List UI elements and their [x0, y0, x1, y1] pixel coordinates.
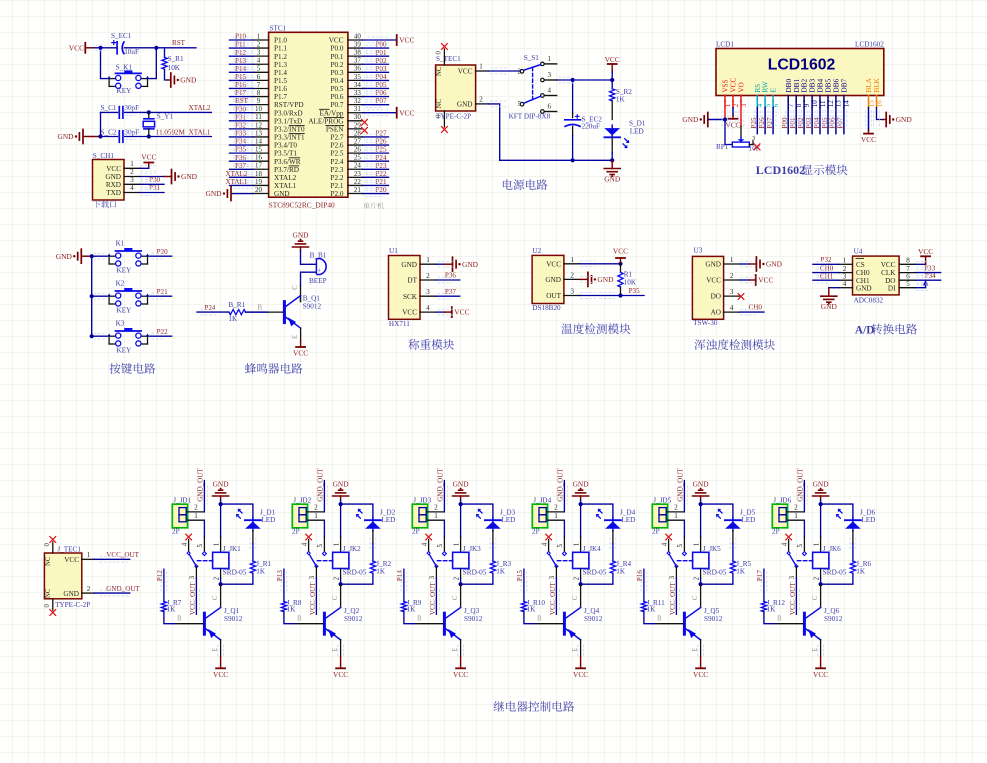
wire — [230, 168, 254, 170]
svg-text:4: 4 — [181, 542, 188, 546]
wire — [461, 573, 493, 584]
wire base — [404, 612, 416, 624]
svg-text:35: 35 — [354, 73, 362, 81]
svg-text:BLK: BLK — [873, 77, 881, 92]
no-ERC marker — [754, 144, 760, 150]
svg-text:S9012: S9012 — [303, 303, 322, 311]
svg-text:VCC: VCC — [813, 670, 828, 679]
ground — [707, 113, 709, 127]
wire — [581, 504, 613, 519]
junction — [610, 78, 614, 82]
wire — [94, 47, 117, 49]
svg-text:RST: RST — [172, 39, 186, 47]
svg-text:1K: 1K — [256, 567, 266, 575]
svg-text:4: 4 — [541, 542, 548, 546]
svg-text:SRD-05: SRD-05 — [583, 569, 607, 577]
svg-text:2: 2 — [453, 576, 460, 580]
svg-text:VCC_OUT: VCC_OUT — [189, 582, 197, 615]
relay blade — [549, 553, 557, 566]
pin 2 — [308, 511, 324, 513]
svg-text:S_R1: S_R1 — [168, 55, 184, 63]
ground — [693, 495, 709, 497]
svg-text:1: 1 — [314, 512, 318, 520]
svg-text:GND_OUT: GND_OUT — [437, 468, 445, 502]
svg-text:BLA: BLA — [865, 77, 873, 92]
wire — [916, 286, 926, 288]
svg-text:18: 18 — [255, 170, 263, 178]
no-ERC marker — [442, 44, 448, 50]
svg-text:1K: 1K — [287, 606, 297, 614]
pin 1 VCC — [476, 70, 489, 72]
svg-text:P13: P13 — [235, 57, 246, 65]
wire — [230, 184, 254, 186]
svg-text:P3.7/RD: P3.7/RD — [274, 166, 299, 174]
svg-text:GND: GND — [813, 480, 830, 489]
wire — [803, 520, 805, 537]
svg-text:22: 22 — [354, 178, 362, 186]
LED J_D6 — [845, 519, 861, 521]
junction — [571, 78, 575, 82]
svg-text:P0.3: P0.3 — [331, 69, 344, 77]
svg-text:XTAL2: XTAL2 — [189, 104, 211, 112]
svg-text:10K: 10K — [624, 278, 637, 286]
power port VCC — [396, 35, 398, 45]
svg-text:2P: 2P — [532, 528, 540, 536]
pin 1 — [668, 519, 684, 521]
pin 2 — [668, 511, 684, 513]
wire — [488, 104, 499, 160]
pin 2 GND — [476, 103, 489, 105]
wire — [341, 504, 373, 519]
svg-text:2: 2 — [426, 272, 430, 280]
wire base — [644, 612, 656, 624]
svg-text:3: 3 — [189, 575, 196, 579]
node P12 — [163, 569, 165, 601]
svg-text:GND: GND — [181, 172, 198, 181]
pin 1 — [548, 519, 564, 521]
pin 26 P2.5 — [348, 152, 363, 154]
power port VCC — [749, 279, 755, 281]
svg-text:4: 4 — [301, 542, 308, 546]
relay J_JK6 pin5 — [803, 537, 805, 551]
svg-text:P23: P23 — [375, 162, 386, 170]
svg-text:1K: 1K — [407, 606, 417, 614]
svg-text:C: C — [692, 595, 699, 600]
wire — [764, 101, 766, 108]
wire — [740, 311, 764, 313]
svg-text:P0.0: P0.0 — [331, 45, 344, 53]
svg-text:LED: LED — [741, 516, 755, 524]
svg-text:P1.1: P1.1 — [274, 45, 287, 53]
wire collector — [460, 584, 462, 607]
wire — [230, 128, 254, 130]
relay J_JK1 pin5 — [203, 537, 205, 551]
svg-text:1: 1 — [573, 543, 580, 546]
svg-text:P24: P24 — [375, 154, 386, 162]
svg-text:GND_OUT: GND_OUT — [317, 468, 325, 502]
svg-text:20: 20 — [255, 186, 263, 194]
wire — [787, 101, 789, 108]
wire — [611, 72, 613, 80]
svg-text:2: 2 — [794, 503, 798, 511]
svg-text:VCC: VCC — [730, 78, 738, 93]
wire — [611, 138, 613, 153]
wire — [232, 193, 253, 195]
svg-text:P04: P04 — [375, 73, 386, 81]
junction — [219, 582, 223, 586]
svg-text:VCC: VCC — [453, 670, 468, 679]
svg-text:DT: DT — [407, 277, 417, 285]
svg-text:DB3: DB3 — [809, 79, 817, 93]
svg-text:S9012: S9012 — [584, 615, 603, 623]
wire — [436, 295, 459, 297]
svg-text:26: 26 — [354, 146, 362, 154]
wire collector — [700, 584, 702, 607]
resistor J_R5 — [730, 561, 735, 573]
svg-text:P37: P37 — [235, 162, 246, 170]
svg-text:KEY: KEY — [117, 87, 133, 95]
junction — [90, 334, 94, 338]
wire — [221, 504, 253, 519]
pin 33 P0.6 — [348, 96, 363, 98]
wire — [580, 496, 582, 500]
relay link dashed — [197, 560, 212, 562]
svg-text:S_C2: S_C2 — [101, 128, 117, 136]
svg-text:P06: P06 — [375, 89, 386, 97]
svg-text:NC: NC — [436, 66, 443, 76]
wire coil pin1 — [700, 504, 702, 537]
svg-text:10uF: 10uF — [124, 48, 139, 56]
wire — [362, 184, 388, 186]
pin 5 P1.4 — [253, 71, 269, 73]
module U2 body — [532, 255, 564, 303]
wire — [246, 311, 268, 313]
svg-text:CS: CS — [856, 261, 865, 269]
svg-text:2: 2 — [130, 168, 134, 176]
svg-text:SRD-05: SRD-05 — [463, 569, 487, 577]
wire — [300, 328, 302, 340]
svg-text:GND: GND — [333, 480, 350, 489]
svg-text:5: 5 — [437, 544, 444, 548]
wire — [362, 71, 388, 73]
svg-text:1K: 1K — [767, 606, 777, 614]
svg-text:P12: P12 — [156, 570, 164, 581]
svg-text:VCC_OUT: VCC_OUT — [106, 551, 139, 559]
svg-text:LED: LED — [630, 127, 644, 135]
junction — [699, 502, 703, 506]
junction — [339, 582, 343, 586]
resistor J_R3 — [490, 561, 495, 573]
svg-text:30pF: 30pF — [124, 128, 139, 136]
wire — [843, 101, 845, 108]
wire — [362, 39, 396, 41]
pin 25 P2.4 — [348, 160, 363, 162]
svg-text:1: 1 — [426, 256, 430, 264]
svg-text:XTAL1: XTAL1 — [274, 182, 297, 190]
svg-text:1: 1 — [813, 543, 820, 546]
svg-text:P2.4: P2.4 — [331, 158, 344, 166]
svg-text:DI: DI — [888, 284, 896, 292]
svg-text:4: 4 — [548, 87, 552, 95]
wire coil pin2 — [340, 569, 342, 579]
ground — [813, 495, 829, 497]
wire — [443, 520, 445, 537]
wire — [803, 101, 805, 108]
wire — [94, 592, 130, 594]
wire — [101, 111, 118, 113]
svg-text:GND: GND — [856, 284, 872, 292]
svg-text:28: 28 — [354, 129, 362, 137]
wire emitter — [700, 640, 702, 657]
pin 34 P0.5 — [348, 87, 363, 89]
LED S_D1 — [604, 128, 620, 135]
svg-text:U3: U3 — [694, 246, 703, 254]
svg-text:VCC: VCC — [106, 165, 121, 173]
svg-text:P16: P16 — [235, 81, 246, 89]
svg-text:C: C — [452, 595, 459, 600]
wire base — [764, 612, 776, 624]
svg-text:RW: RW — [762, 81, 770, 92]
svg-text:HX711: HX711 — [389, 320, 410, 328]
wire — [124, 47, 196, 49]
svg-text:P05: P05 — [375, 81, 386, 89]
wire — [220, 496, 222, 500]
ground — [611, 160, 613, 168]
svg-text:B: B — [537, 615, 542, 622]
svg-text:P3.0/RxD: P3.0/RxD — [274, 109, 303, 117]
relay pin3 wire — [435, 567, 437, 578]
resistor J_R6 — [850, 561, 855, 573]
svg-text:GND: GND — [896, 115, 913, 124]
wire — [835, 101, 837, 108]
wire pin16 BLK — [876, 101, 878, 108]
wire base — [284, 612, 296, 624]
svg-text:P15: P15 — [516, 570, 524, 581]
junction — [459, 502, 463, 506]
svg-text:VCC: VCC — [454, 308, 469, 317]
wire — [572, 80, 574, 114]
ground — [213, 495, 229, 497]
pin 19 XTAL1 — [253, 184, 269, 186]
svg-text:B: B — [777, 615, 782, 622]
svg-text:GND_OUT: GND_OUT — [797, 468, 805, 502]
relay J_JK2 pin5 — [323, 537, 325, 551]
svg-text:VCC_OUT: VCC_OUT — [789, 582, 797, 615]
svg-text:B: B — [258, 305, 263, 312]
wire — [300, 286, 302, 302]
junction — [339, 502, 343, 506]
svg-text:2: 2 — [257, 40, 261, 48]
relay J_JK3 pin5 — [443, 537, 445, 551]
svg-text:P30: P30 — [149, 176, 160, 184]
svg-text:S9012: S9012 — [464, 615, 483, 623]
resistor J_R12 — [761, 602, 766, 612]
relay switch pin4 — [546, 534, 552, 540]
ground — [453, 495, 469, 497]
svg-text:P0.7: P0.7 — [331, 101, 344, 109]
svg-text:P26: P26 — [375, 138, 386, 146]
svg-text:21: 21 — [354, 186, 362, 194]
power port VCC — [148, 163, 150, 166]
svg-text:B: B — [177, 615, 182, 622]
wire — [230, 160, 254, 162]
svg-text:DO: DO — [711, 293, 721, 301]
wire — [230, 104, 254, 106]
svg-text:1K: 1K — [527, 606, 537, 614]
wire — [101, 48, 108, 79]
wire — [230, 47, 254, 49]
wire — [611, 101, 613, 120]
wire — [203, 481, 205, 512]
svg-text:SCK: SCK — [403, 293, 418, 301]
svg-text:J_Q5: J_Q5 — [704, 607, 720, 615]
wire — [230, 71, 254, 73]
svg-text:PSEN: PSEN — [326, 125, 344, 133]
wire — [221, 573, 253, 584]
svg-text:LCD1602: LCD1602 — [768, 56, 836, 73]
svg-text:B: B — [417, 615, 422, 622]
svg-text:VCC: VCC — [918, 247, 933, 256]
svg-text:P1.0: P1.0 — [274, 37, 287, 45]
svg-text:2: 2 — [674, 503, 678, 511]
svg-text:P02: P02 — [797, 117, 805, 128]
svg-text:VCC: VCC — [293, 349, 308, 358]
svg-text:2: 2 — [434, 503, 438, 511]
resistor J_R9 — [401, 602, 406, 612]
svg-text:1: 1 — [554, 512, 558, 520]
resistor J_R10 — [521, 602, 526, 612]
svg-text:P1.2: P1.2 — [274, 53, 287, 61]
svg-text:2P: 2P — [412, 528, 420, 536]
svg-text:J_Q6: J_Q6 — [824, 607, 840, 615]
svg-text:DB6: DB6 — [833, 79, 841, 93]
svg-text:1K: 1K — [736, 567, 746, 575]
svg-text:GND_OUT: GND_OUT — [106, 585, 140, 593]
svg-text:5: 5 — [317, 544, 324, 548]
svg-text:GND_OUT: GND_OUT — [557, 468, 565, 502]
svg-text:GND: GND — [56, 252, 73, 261]
svg-text:DB0: DB0 — [785, 79, 793, 93]
junction — [579, 582, 583, 586]
wire — [101, 136, 118, 138]
svg-text:SRD-05: SRD-05 — [823, 569, 847, 577]
wire — [125, 111, 212, 113]
wire — [813, 279, 839, 281]
svg-text:GND: GND — [57, 132, 74, 141]
svg-text:P3.5/T1: P3.5/T1 — [274, 150, 297, 158]
MCU U STC1 body — [269, 32, 348, 197]
svg-text:1K: 1K — [647, 606, 657, 614]
pin 22 P2.1 — [348, 184, 363, 186]
svg-text:5: 5 — [257, 65, 261, 73]
wire — [772, 101, 774, 108]
svg-text:GND: GND — [573, 480, 590, 489]
svg-text:1: 1 — [194, 512, 198, 520]
svg-text:12: 12 — [255, 121, 263, 129]
svg-text:GND: GND — [180, 76, 197, 85]
svg-text:P2.6: P2.6 — [331, 142, 344, 150]
svg-text:4: 4 — [130, 184, 134, 192]
relay J_JK5 pin5 — [683, 537, 685, 551]
power port VCC — [220, 657, 222, 668]
svg-text:P0.4: P0.4 — [331, 77, 344, 85]
wire — [821, 573, 853, 584]
svg-text:GND: GND — [682, 115, 699, 124]
svg-text:U4: U4 — [854, 248, 863, 256]
wire collector — [820, 584, 822, 607]
wire — [557, 79, 613, 81]
wire — [140, 176, 164, 178]
wire — [362, 96, 388, 98]
svg-text:C: C — [812, 595, 819, 600]
relay blade — [189, 553, 197, 566]
pin 20 GND — [253, 193, 269, 195]
svg-text:GND: GND — [205, 189, 222, 198]
svg-text:VCC: VCC — [758, 276, 773, 285]
wire — [488, 70, 519, 72]
wire — [230, 136, 254, 138]
svg-text:VCC: VCC — [613, 247, 628, 256]
power port VCC — [580, 657, 582, 668]
svg-text:P1.4: P1.4 — [274, 69, 287, 77]
svg-text:P24: P24 — [204, 304, 215, 312]
svg-text:S_S1: S_S1 — [524, 54, 540, 62]
transistor B_Q1 — [300, 296, 302, 302]
svg-text:P33: P33 — [235, 130, 246, 138]
svg-text:VCC: VCC — [213, 670, 228, 679]
svg-text:P32: P32 — [821, 256, 832, 264]
wire — [301, 272, 317, 286]
svg-text:EA/Vpp: EA/Vpp — [320, 109, 344, 117]
wire — [230, 176, 254, 178]
svg-text:STC89C52RC_DIP40: STC89C52RC_DIP40 — [269, 201, 335, 210]
pin 17 P3.7/RD — [253, 168, 269, 170]
relay blade — [429, 553, 437, 566]
LED J_D5 — [725, 519, 741, 521]
svg-text:P36: P36 — [445, 271, 456, 279]
svg-text:VCC: VCC — [329, 37, 344, 45]
svg-text:14: 14 — [255, 137, 263, 145]
wire — [683, 520, 685, 537]
svg-text:P25: P25 — [750, 117, 758, 128]
pin 1 — [124, 167, 140, 169]
wire — [916, 272, 941, 274]
wire — [740, 279, 750, 281]
svg-text:P3.4/T0: P3.4/T0 — [274, 142, 297, 150]
power port VCC — [820, 657, 822, 668]
LED J_D2 — [365, 519, 381, 521]
wire coil pin2 — [220, 569, 222, 579]
pin 0 bottom — [443, 111, 445, 127]
svg-text:4: 4 — [661, 542, 668, 546]
svg-text:P07: P07 — [375, 97, 386, 105]
relay blade — [309, 553, 317, 566]
svg-text:P2.7: P2.7 — [331, 134, 344, 142]
module U4 body — [853, 256, 900, 295]
svg-text:SRD-05: SRD-05 — [703, 569, 727, 577]
svg-text:P34: P34 — [235, 138, 246, 146]
wire — [230, 112, 254, 114]
pin 14 P3.4/T0 — [253, 144, 269, 146]
relay switch pin4 — [666, 534, 672, 540]
svg-text:NC: NC — [45, 556, 52, 566]
junction — [723, 117, 727, 121]
pin 1 — [788, 519, 804, 521]
wire coil pin2 — [700, 569, 702, 579]
svg-text:U1: U1 — [389, 247, 398, 255]
power port VCC — [460, 657, 462, 668]
svg-text:P22: P22 — [157, 328, 168, 336]
